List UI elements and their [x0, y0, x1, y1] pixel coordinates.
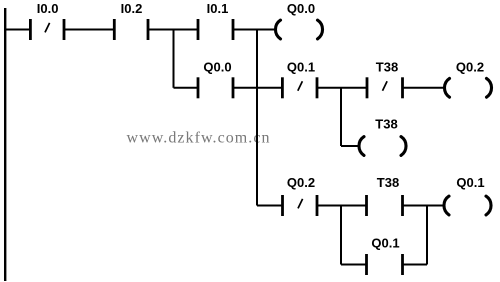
svg-text:T38: T38	[376, 60, 398, 75]
svg-text:Q0.0: Q0.0	[203, 60, 231, 75]
svg-text:I0.2: I0.2	[121, 1, 143, 16]
svg-text:Q0.1: Q0.1	[456, 175, 484, 190]
svg-text:T38: T38	[375, 117, 397, 132]
svg-text:I0.0: I0.0	[37, 1, 59, 16]
svg-text:www.dzkfw.com.cn: www.dzkfw.com.cn	[127, 130, 271, 147]
svg-text:I0.1: I0.1	[207, 1, 229, 16]
svg-text:Q0.1: Q0.1	[287, 60, 315, 75]
svg-text:Q0.2: Q0.2	[287, 175, 315, 190]
svg-text:T38: T38	[377, 175, 399, 190]
svg-text:Q0.1: Q0.1	[371, 236, 399, 251]
svg-text:Q0.2: Q0.2	[456, 60, 484, 75]
svg-text:Q0.0: Q0.0	[287, 1, 315, 16]
